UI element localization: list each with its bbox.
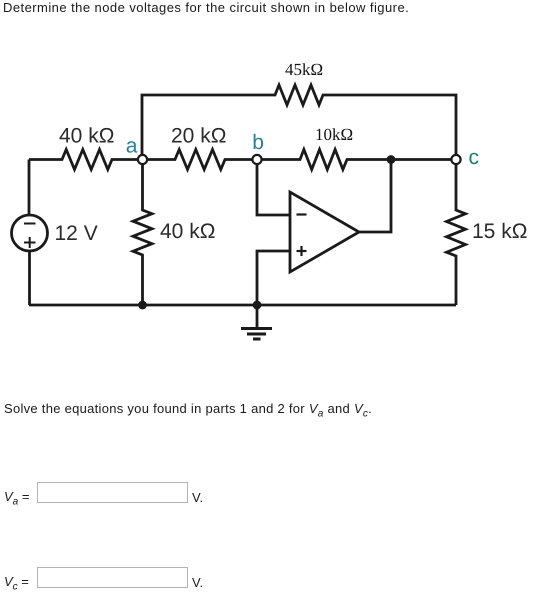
svg-text:40 kΩ: 40 kΩ bbox=[59, 125, 114, 148]
svg-text:c: c bbox=[469, 146, 480, 169]
svg-text:10kΩ: 10kΩ bbox=[315, 125, 353, 144]
svg-text:15 kΩ: 15 kΩ bbox=[472, 220, 527, 243]
svg-text:45kΩ: 45kΩ bbox=[285, 60, 323, 79]
svg-text:b: b bbox=[252, 131, 264, 154]
svg-text:40 kΩ: 40 kΩ bbox=[160, 220, 215, 243]
svg-text:20 kΩ: 20 kΩ bbox=[171, 125, 226, 148]
svg-text:a: a bbox=[126, 135, 138, 158]
svg-text:12 V: 12 V bbox=[55, 222, 98, 245]
